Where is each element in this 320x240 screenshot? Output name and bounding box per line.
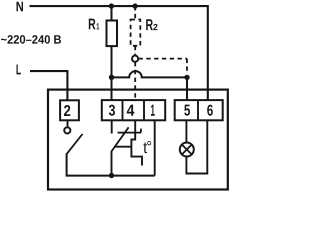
resistor R2 (dashed) — [131, 20, 141, 46]
wire dashed from contact down to terminal 4 — [134, 62, 136, 100]
terminal digit 1 — [151, 105, 155, 116]
wire terminal 5 to lamp — [185, 120, 187, 142]
wire dashed from contact to right — [139, 58, 188, 60]
bimetal sensor element staircase — [131, 133, 142, 166]
label R2 R — [146, 19, 153, 30]
relay contact bar — [118, 132, 142, 134]
terminal digit 6 — [207, 105, 213, 116]
label t degree — [147, 141, 151, 145]
wire dashed down to junction above terminal 5 — [186, 59, 188, 75]
label ~220-240 V — [1, 35, 61, 44]
switch S2 stub below terminal 2 — [67, 120, 69, 127]
wire stub below terminal 4 — [134, 120, 136, 132]
terminal digit 5 — [184, 105, 190, 116]
wire R1 bottom to terminal 3 — [111, 46, 113, 100]
node junction below R1 — [109, 75, 114, 80]
terminal digit 3 — [109, 105, 115, 116]
wire R2 top stub (dashed) — [134, 6, 136, 19]
wire stub below terminal 3 — [111, 120, 113, 133]
wire horizontal with hop over dashed line — [112, 71, 188, 77]
terminal digit 2 — [64, 105, 70, 116]
wire down to terminal 5 — [186, 77, 188, 100]
switch S2 open contact circle — [64, 127, 70, 133]
terminal digit 4 — [127, 105, 135, 116]
terminal divider 5|6 — [197, 100, 199, 120]
relay blade K1 — [111, 127, 128, 151]
label L — [17, 65, 21, 75]
wire blade down to bottom rail — [111, 151, 113, 176]
wire switch S2 down to bottom rail — [67, 154, 155, 176]
wire terminal 1 down to bottom rail — [154, 120, 156, 175]
terminal divider 3|4 — [122, 100, 124, 120]
node junction above R2 — [132, 3, 137, 8]
terminal 2 box — [60, 100, 79, 120]
label N — [17, 2, 24, 11]
wire R2 bottom stub (dashed) — [134, 46, 136, 56]
terminal divider 4|1 — [143, 100, 145, 120]
terminal strip 5-6 box — [175, 100, 223, 120]
wire R1 top stub — [111, 6, 113, 20]
lamp HL — [180, 143, 194, 157]
label R1 subscript 1 — [97, 23, 100, 29]
label t — [143, 142, 147, 153]
node open contact circle — [132, 56, 138, 62]
label R2 subscript 2 — [153, 24, 157, 30]
wire L to terminal 2 — [30, 71, 67, 100]
label R1 R — [89, 19, 96, 30]
resistor R1 — [107, 21, 118, 47]
terminal strip 3-4-1 box — [102, 100, 165, 120]
mechanical link from blade to bimetal — [115, 146, 132, 148]
relay contact bar hook — [140, 129, 142, 133]
switch S2 blade — [67, 134, 83, 154]
node junction above terminal 5 — [184, 75, 189, 80]
device outer box — [48, 90, 228, 190]
wire N top rail — [30, 6, 208, 100]
node junction on bottom rail — [109, 173, 114, 178]
wire lamp to terminal 6 — [186, 120, 207, 173]
node junction above R1 — [109, 3, 114, 8]
